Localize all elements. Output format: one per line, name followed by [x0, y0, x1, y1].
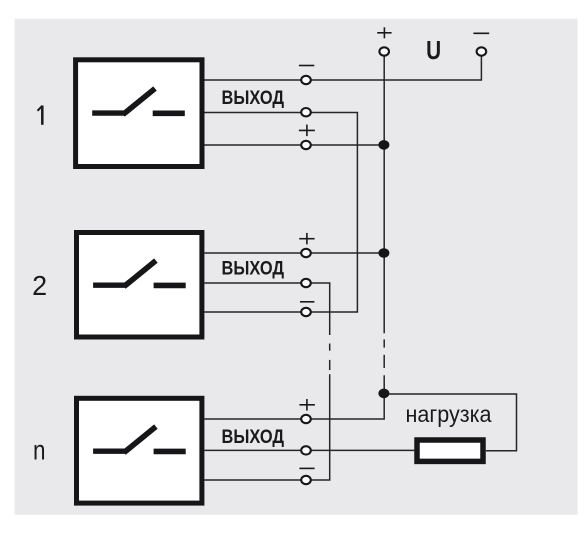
terminal: supply plus (top) [379, 47, 389, 55]
svg-text:U: U [426, 35, 441, 65]
wire: module 2 plus output to bus [205, 252, 385, 254]
polarity mark: plus above module 2 plus terminal [299, 233, 314, 245]
svg-text:нагрузка: нагрузка [406, 401, 492, 427]
wire: supply bus dashed segment [383, 339, 385, 368]
polarity mark: minus above module 2 minus terminal [300, 301, 314, 303]
svg-text:ВЫХОД: ВЫХОД [222, 88, 285, 109]
switch module n box [77, 398, 202, 503]
terminal: module 2 plus output [301, 249, 311, 257]
svg-text:ВЫХОД: ВЫХОД [222, 259, 285, 280]
resistor: load (nagruzka) [417, 440, 483, 461]
switch module 1 box [76, 60, 202, 167]
terminal: module 2 minus output [301, 308, 311, 316]
terminal: module 1 vyhod output [301, 108, 311, 116]
terminal: supply minus (top right) [477, 47, 487, 55]
junction node: bus with module 2 plus [378, 248, 389, 258]
wire: module n vyhod output to load left terminal [205, 449, 415, 451]
wire: supply plus bus vertical (solid upper part) [383, 52, 385, 333]
wire: dashed continuation between module 2 and module n [329, 344, 331, 371]
switch S2 contact symbol [93, 261, 186, 287]
switch Sn contact symbol [93, 427, 186, 453]
polarity mark: plus above module 1 plus terminal [299, 125, 315, 137]
wire: module 1 plus output to bus [205, 144, 385, 146]
polarity mark: plus above supply plus terminal [377, 27, 391, 38]
wire: module 1 minus output to top minus terminal [205, 52, 482, 80]
wire: module 2 vyhod chain into module n minus input [205, 374, 330, 480]
terminal: module n minus output [301, 476, 311, 484]
junction node: bus with load branch [378, 389, 389, 399]
terminal: module n plus output [301, 415, 311, 423]
junction node: bus with module 1 plus [378, 140, 389, 150]
terminal: module 1 plus output [301, 141, 311, 149]
terminal: module 2 vyhod output [301, 279, 311, 287]
terminal: module n vyhod output [301, 446, 311, 454]
wire: bus junction to load right terminal [384, 394, 516, 451]
svg-text:2: 2 [32, 270, 47, 301]
wire: module 1 vyhod output down to module 2 minus input [205, 113, 358, 313]
switch S1 contact symbol [92, 89, 185, 115]
polarity mark: plus above module n plus terminal [299, 399, 315, 411]
label: module 1 [38, 106, 43, 125]
svg-text:ВЫХОД: ВЫХОД [222, 427, 285, 448]
polarity mark: minus above module n minus terminal [299, 467, 314, 469]
polarity mark: minus above module 1 minus terminal [299, 65, 314, 67]
polarity mark: minus above supply minus terminal [473, 32, 489, 34]
wire: supply bus lower solid segment to module n plus [205, 375, 385, 419]
svg-text:n: n [33, 434, 46, 465]
wire: module 2 vyhod output down toward module n (solid upper part) [205, 283, 330, 335]
terminal: module 1 minus output [301, 76, 311, 84]
switch module 2 box [77, 233, 202, 338]
